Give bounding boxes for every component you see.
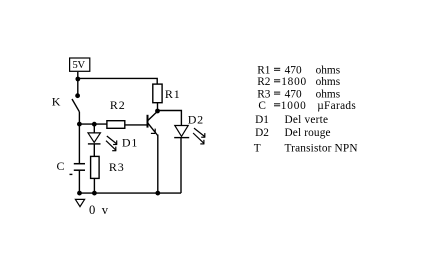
wire: base wire R2 to transistor: [125, 124, 147, 126]
diode D1 (LED verte): [88, 133, 101, 144]
svg-text:Transistor NPN: Transistor NPN: [285, 143, 358, 155]
5V supply box: [70, 58, 90, 71]
D2 light arrow 2: [193, 133, 204, 144]
svg-text:1000: 1000: [281, 100, 306, 112]
svg-text:ohms: ohms: [316, 65, 341, 77]
node: emitter bottom junction: [155, 191, 160, 196]
node: collector junction: [155, 109, 160, 114]
svg-text:R2: R2: [110, 98, 126, 112]
node: R3 bottom junction: [92, 191, 97, 196]
svg-text:R1: R1: [257, 65, 270, 77]
wire: switch to capacitor: [78, 112, 80, 164]
svg-text:T: T: [254, 143, 261, 155]
svg-text:Del rouge: Del rouge: [285, 127, 331, 139]
wire: D1 branch down from base wire: [93, 124, 95, 133]
svg-text:D2: D2: [188, 112, 204, 126]
resistor R2: [107, 121, 125, 129]
svg-text:K: K: [52, 94, 61, 108]
svg-text:470: 470: [285, 88, 302, 100]
D1 light arrow 1: [107, 136, 117, 145]
svg-text:D1: D1: [122, 136, 138, 150]
svg-text:C: C: [57, 159, 65, 173]
diode D2 (LED rouge): [174, 126, 189, 138]
wire: D1 cathode to R3: [93, 144, 95, 157]
switch K blade: [72, 99, 79, 112]
svg-text:0 v: 0 v: [89, 203, 109, 217]
svg-text:1800: 1800: [281, 76, 306, 88]
svg-text:R2: R2: [257, 76, 271, 88]
node: ground junction: [77, 191, 82, 196]
svg-text:5V: 5V: [72, 59, 85, 71]
svg-text:470: 470: [285, 65, 302, 77]
resistor R3: [91, 156, 100, 178]
wire: top rail to R1: [78, 78, 157, 84]
wire: bottom rail: [79, 192, 181, 194]
svg-text:R1: R1: [165, 87, 181, 101]
svg-text:Del verte: Del verte: [285, 114, 329, 126]
svg-text:R3: R3: [257, 88, 271, 100]
wire: R1 bottom to collector node: [157, 103, 159, 111]
node: top rail junction: [75, 77, 80, 82]
wire: 5V box down to switch contact: [77, 72, 79, 96]
node: base branch junction: [77, 122, 82, 127]
resistor R1: [153, 84, 162, 103]
wire: capacitor to bottom rail: [78, 170, 80, 193]
svg-text:ohms: ohms: [316, 88, 341, 100]
svg-text:D1: D1: [255, 114, 269, 126]
svg-text:ohms: ohms: [316, 76, 341, 88]
node: D1 branch junction: [92, 122, 97, 127]
svg-text:D2: D2: [255, 127, 269, 139]
svg-text:µFarads: µFarads: [317, 100, 356, 112]
wire: collector node to D2 anode: [158, 111, 182, 126]
wire: left vertical to R2: [79, 123, 107, 125]
D2 light arrow 1: [194, 128, 205, 137]
wire: D2 cathode down to bottom rail: [180, 138, 182, 194]
transistor T (NPN): [148, 111, 158, 135]
capacitor C: [70, 164, 86, 175]
wire: R3 to bottom rail: [93, 178, 95, 193]
svg-text:C: C: [258, 100, 266, 112]
svg-text:R3: R3: [109, 160, 125, 174]
D1 light arrow 2: [106, 141, 116, 151]
component value table: [254, 65, 358, 155]
switch K contact node: [75, 93, 80, 98]
wire: emitter down to bottom rail: [157, 135, 159, 194]
ground symbol: [75, 199, 84, 206]
